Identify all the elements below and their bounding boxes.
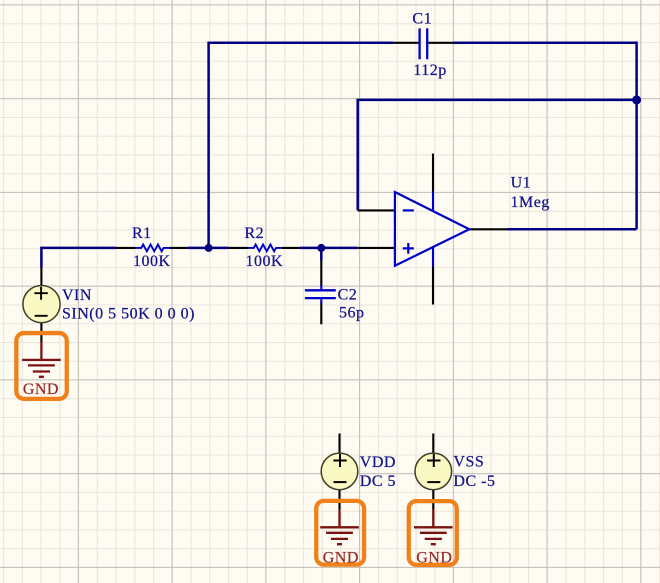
op-amp U1 input pins	[358, 210, 395, 248]
voltage source VSS plus mark	[427, 454, 440, 467]
voltage source VIN circle	[23, 286, 60, 323]
voltage source VDD lower pin	[338, 490, 340, 510]
svg-text:R2: R2	[245, 225, 265, 242]
voltage source VDD plus mark	[333, 454, 346, 467]
capacitor C2 pins	[320, 261, 322, 325]
svg-text:U1: U1	[511, 175, 532, 192]
svg-text:R1: R1	[132, 225, 152, 242]
capacitor C1 plates	[420, 28, 428, 59]
node A junction	[205, 244, 213, 252]
svg-text:VIN: VIN	[62, 287, 92, 304]
voltage source VDD minus mark	[334, 481, 347, 483]
ground symbol under VSS	[414, 509, 453, 544]
svg-text:GND: GND	[23, 381, 59, 398]
voltage source VIN pins	[40, 268, 42, 343]
op-amp U1 triangle body	[395, 192, 469, 266]
wire R2 to node B	[300, 247, 321, 250]
ground symbol under VIN	[22, 342, 61, 377]
svg-text:1Meg: 1Meg	[511, 194, 550, 211]
capacitor C1 pins	[394, 42, 454, 44]
wire inner feedback loop to inverting input	[358, 100, 637, 210]
resistor R2 pins	[228, 247, 300, 249]
svg-text:100K: 100K	[246, 253, 284, 270]
op-amp U1 power pin V-	[432, 267, 434, 305]
svg-text:VSS: VSS	[453, 453, 484, 470]
svg-text:VDD: VDD	[360, 454, 396, 471]
op-amp U1 power rail stubs	[432, 192, 434, 268]
svg-text:SIN(0 5 50K 0 0 0): SIN(0 5 50K 0 0 0)	[62, 305, 195, 322]
op-amp U1 power pin V+	[432, 154, 434, 192]
voltage source VSS lower pin	[432, 490, 434, 510]
voltage source VDD pin stub	[338, 434, 340, 454]
svg-text:56p: 56p	[339, 304, 365, 321]
wire node B down to C2	[320, 248, 323, 261]
highlight box around VSS ground	[409, 501, 457, 565]
svg-text:C2: C2	[338, 286, 358, 303]
voltage source VSS circle	[415, 453, 452, 490]
resistor R1	[135, 245, 169, 252]
wire node B to op-amp + input	[321, 247, 357, 250]
output net junction	[632, 95, 641, 104]
wire R1 to node A	[188, 247, 209, 250]
resistor R2	[248, 245, 282, 252]
voltage source VSS pin stub	[432, 434, 434, 454]
wire top feedback from node A through C1 to output net	[209, 43, 637, 248]
svg-text:DC -5: DC -5	[453, 473, 495, 490]
op-amp U1 non-inverting input marker	[403, 243, 414, 254]
op-amp U1 output pin	[469, 228, 507, 230]
svg-text:100K: 100K	[133, 253, 171, 270]
wire VIN to R1	[41, 248, 116, 268]
capacitor C2 plates	[305, 290, 336, 298]
capacitor C2 stubs	[320, 285, 322, 304]
voltage source VSS minus mark	[427, 481, 440, 483]
node B junction	[317, 244, 325, 252]
svg-text:C1: C1	[412, 10, 432, 27]
voltage source VIN plus mark	[34, 287, 47, 300]
svg-text:DC 5: DC 5	[360, 473, 396, 490]
ground symbol under VDD	[320, 509, 359, 544]
voltage source VIN minus mark	[35, 315, 48, 317]
wire node A to R2	[209, 247, 229, 250]
voltage source VDD circle	[321, 453, 358, 490]
svg-text:112p: 112p	[413, 62, 446, 79]
highlight box around VIN ground	[16, 333, 66, 399]
resistor R1 pins	[116, 247, 188, 249]
op-amp U1 inverting input marker	[403, 209, 414, 211]
highlight box around VDD ground	[316, 501, 364, 565]
